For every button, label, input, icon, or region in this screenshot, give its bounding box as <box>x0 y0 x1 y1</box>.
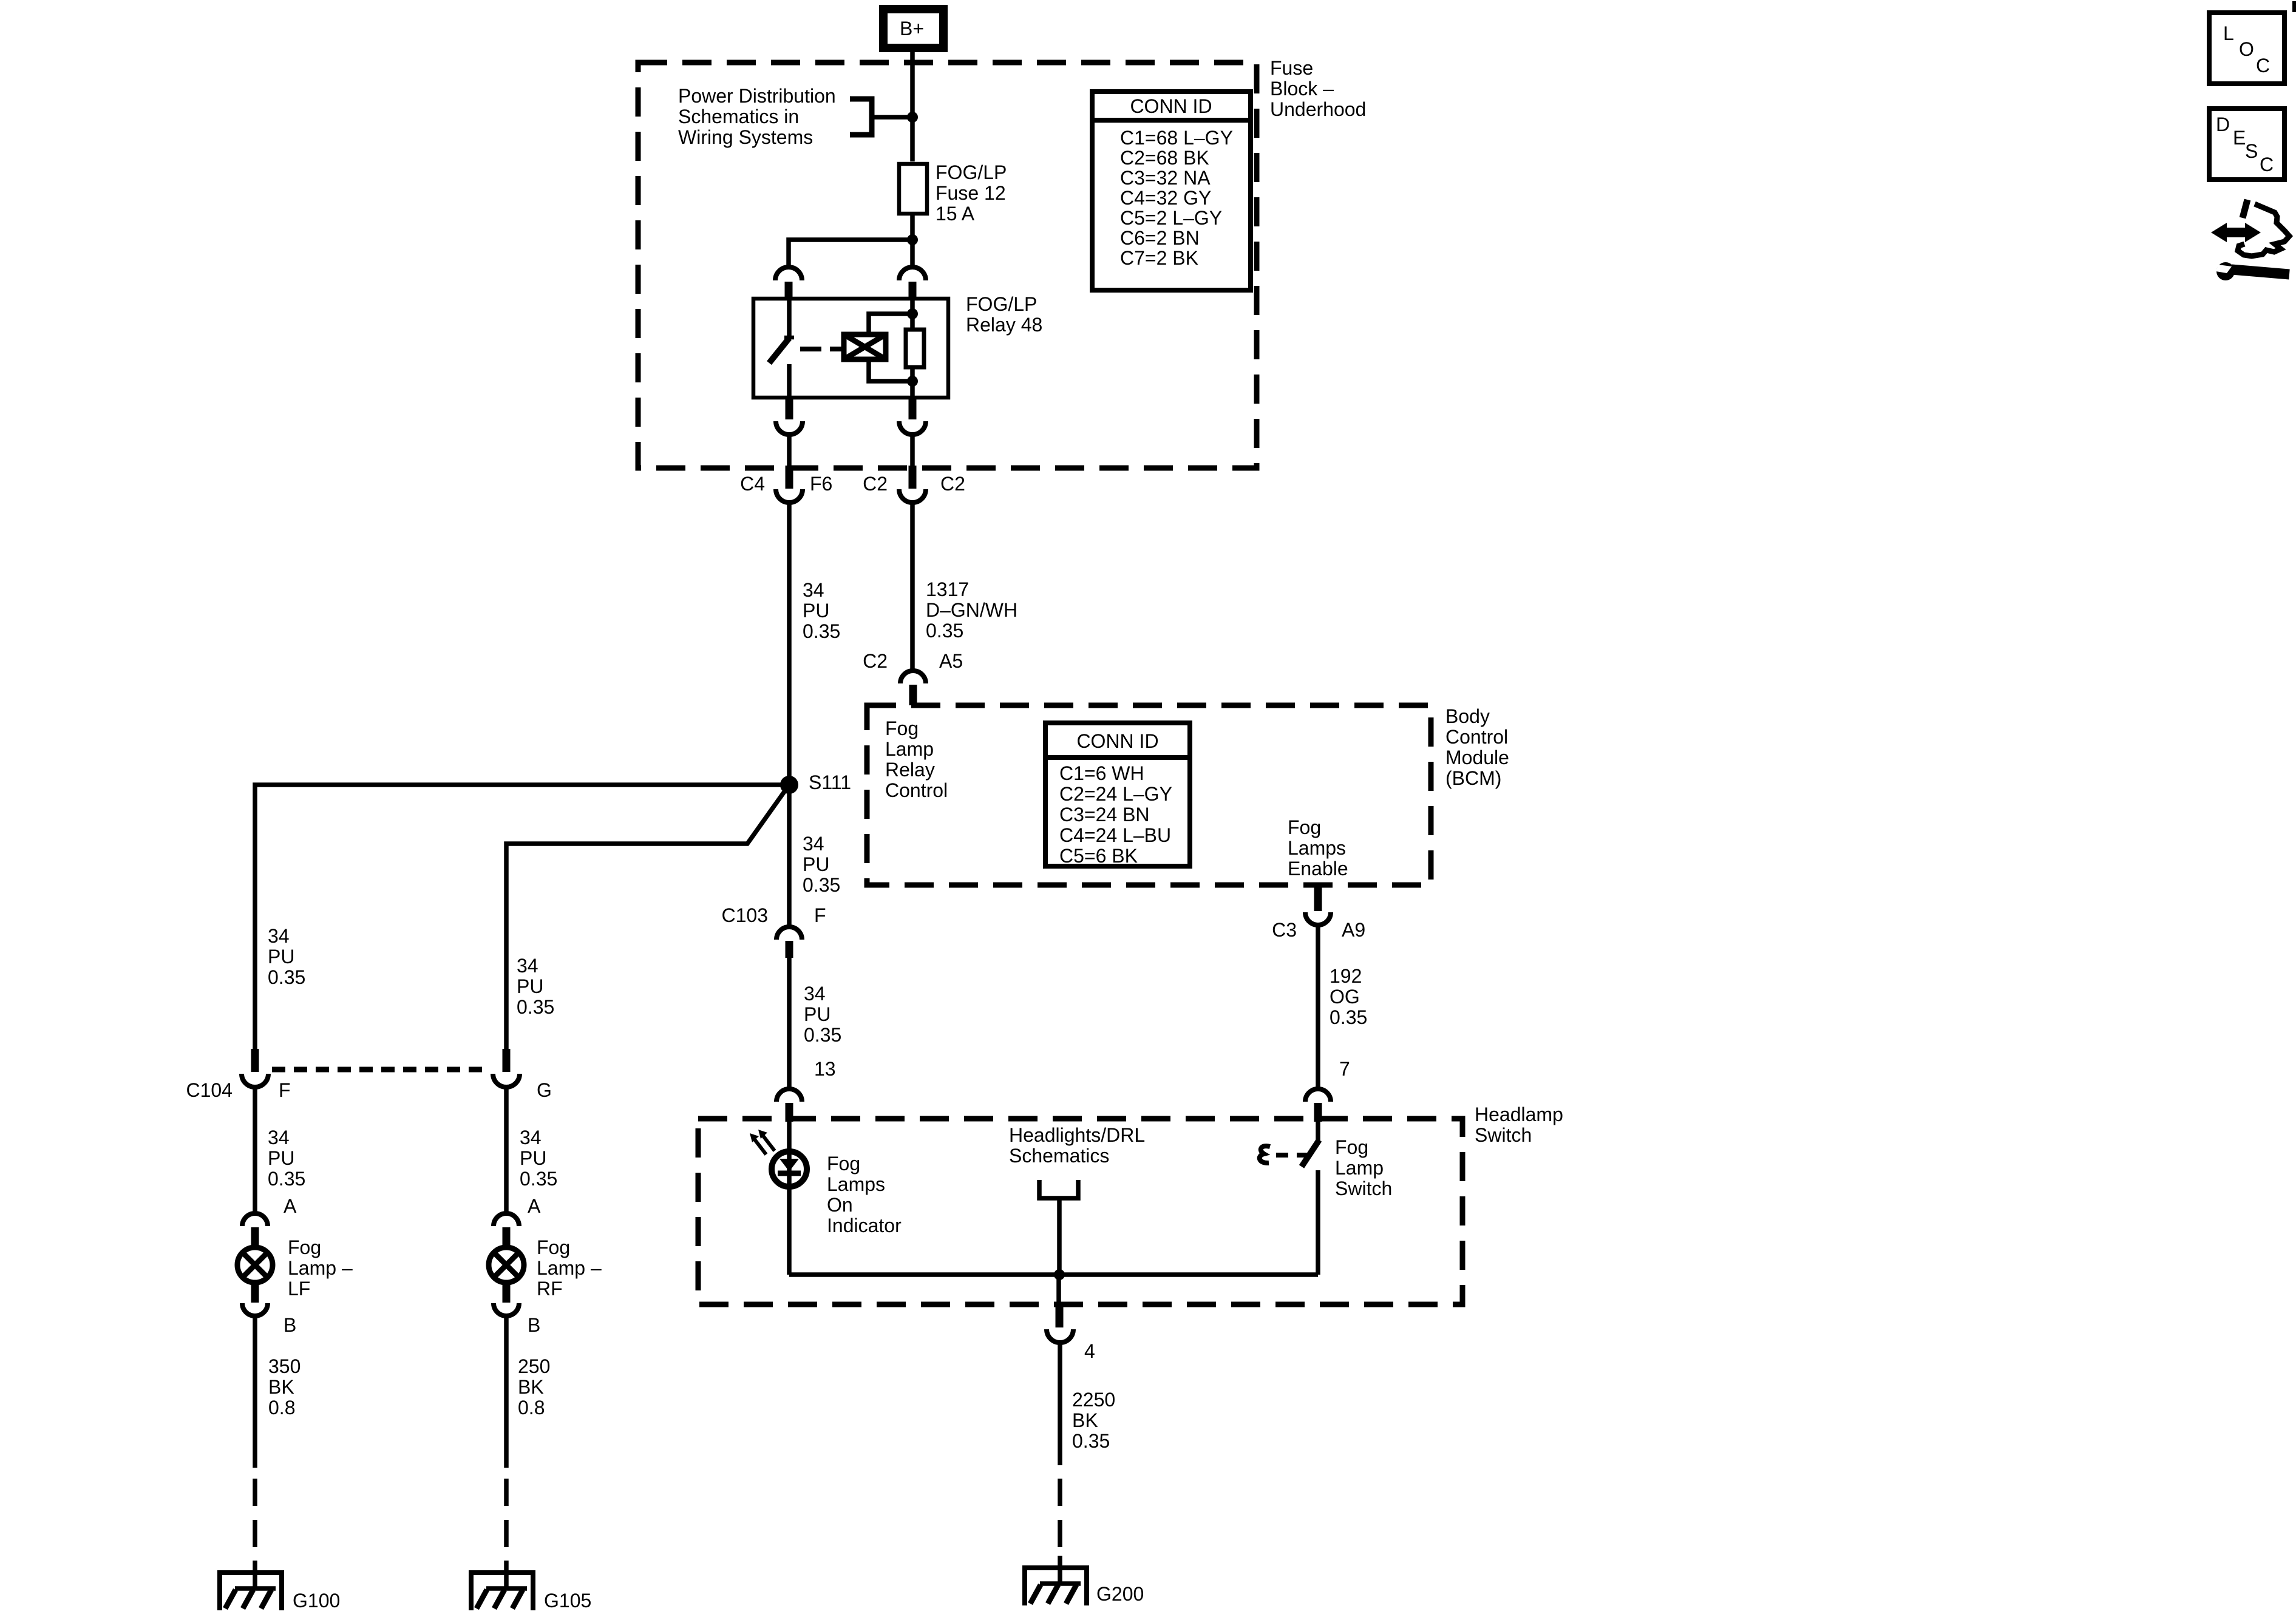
connector pin 7 <box>1305 1058 1350 1122</box>
svg-text:BK: BK <box>1072 1409 1098 1431</box>
wire label 34 PU 0.35 below S111 <box>803 833 840 896</box>
svg-text:B: B <box>528 1314 540 1336</box>
svg-text:FOG/LP: FOG/LP <box>966 293 1037 315</box>
dashed wire RF ground lead <box>504 1479 509 1561</box>
wire C2 to BCM <box>910 503 915 672</box>
wire label 34 PU 0.35 LF <box>268 1127 305 1190</box>
svg-text:RF: RF <box>537 1278 563 1300</box>
pin relay bottom right <box>909 398 917 419</box>
wire label 34 PU 0.35 RF <box>520 1127 557 1190</box>
relay switch lower stub <box>787 364 792 398</box>
wire S111 branch to RF <box>506 785 789 1049</box>
svg-text:C2=68 BK: C2=68 BK <box>1120 147 1209 169</box>
connector C2/C2 at fuse block exit <box>863 466 965 503</box>
svg-text:(BCM): (BCM) <box>1445 767 1501 789</box>
note Power Distribution Schematics in Wiring Systems <box>678 85 836 148</box>
double arrow icon <box>2211 223 2261 242</box>
svg-text:250: 250 <box>518 1355 550 1377</box>
relay switch blade <box>769 338 789 363</box>
svg-text:F: F <box>279 1079 291 1101</box>
wire label 34 PU 0.35 right branch <box>517 955 554 1018</box>
wire C4 to S111 <box>787 503 792 927</box>
svg-text:13: 13 <box>814 1058 836 1080</box>
svg-text:C3=24 BN: C3=24 BN <box>1059 804 1150 825</box>
wire branch to relay switch side <box>789 240 912 266</box>
svg-text:Body: Body <box>1445 705 1490 727</box>
wire B+ to fuse block <box>910 52 915 161</box>
svg-text:On: On <box>827 1194 853 1216</box>
svg-text:C: C <box>2260 154 2274 175</box>
node junction below fuse <box>907 234 918 245</box>
svg-text:Underhood: Underhood <box>1270 98 1366 120</box>
svg-text:CONN ID: CONN ID <box>1130 95 1212 117</box>
svg-text:PU: PU <box>268 946 294 968</box>
svg-text:G100: G100 <box>293 1590 340 1612</box>
CONN ID table BCM <box>1045 723 1190 867</box>
label Fog Lamp - RF <box>537 1236 602 1300</box>
svg-text:0.35: 0.35 <box>268 966 305 988</box>
svg-text:B: B <box>284 1314 296 1336</box>
label Headlights/DRL Schematics <box>1009 1124 1145 1167</box>
pin relay bottom left <box>786 398 793 419</box>
svg-text:F6: F6 <box>810 473 832 495</box>
svg-text:C7=2 BK: C7=2 BK <box>1120 247 1198 269</box>
wire C103 to headlamp switch <box>787 958 792 1090</box>
connector arc below relay left <box>776 421 803 435</box>
svg-text:Lamp –: Lamp – <box>537 1257 602 1279</box>
svg-text:C4: C4 <box>740 473 765 495</box>
wire label 34 PU 0.35 at C103 <box>804 983 841 1046</box>
svg-text:0.35: 0.35 <box>268 1168 305 1190</box>
fuse block underhood dashed box <box>638 63 1257 468</box>
svg-text:350: 350 <box>268 1355 301 1377</box>
fuse FOG/LP Fuse 12 15A <box>899 164 927 214</box>
svg-text:G105: G105 <box>544 1590 591 1612</box>
svg-text:0.35: 0.35 <box>804 1024 841 1046</box>
svg-text:Fuse: Fuse <box>1270 57 1313 79</box>
connector C104 F <box>186 1049 291 1101</box>
svg-text:Indicator: Indicator <box>827 1215 902 1236</box>
wire to fuse block edge right <box>910 435 915 467</box>
svg-text:PU: PU <box>803 600 829 622</box>
relay coil branch wire <box>869 314 912 337</box>
svg-text:C104: C104 <box>186 1079 233 1101</box>
svg-text:Headlights/DRL: Headlights/DRL <box>1009 1124 1145 1146</box>
svg-text:34: 34 <box>520 1127 542 1148</box>
connector arc relay pin 2 top <box>899 267 926 280</box>
svg-text:PU: PU <box>803 853 829 875</box>
svg-text:192: 192 <box>1330 965 1362 987</box>
dashed wire to G200 <box>1058 1479 1062 1556</box>
svg-text:BK: BK <box>268 1376 294 1398</box>
pin A fog lamp LF <box>242 1195 297 1246</box>
B+ power symbol <box>883 9 943 48</box>
wire C104 to fog lamp RF <box>504 1087 509 1213</box>
pin B fog lamp RF <box>494 1284 540 1336</box>
svg-text:LF: LF <box>288 1278 310 1300</box>
svg-text:C4=24 L–BU: C4=24 L–BU <box>1059 824 1171 846</box>
svg-text:Fog: Fog <box>827 1153 860 1175</box>
fog lamp switch <box>1260 1122 1319 1275</box>
svg-text:34: 34 <box>803 579 824 601</box>
svg-text:F: F <box>814 904 826 926</box>
relay right wire through <box>910 299 915 398</box>
wrench icon <box>2216 262 2289 280</box>
connector arc relay pin 1 top <box>775 267 802 280</box>
wire bus to pin 4 <box>1056 1275 1061 1305</box>
pin into relay top right <box>909 282 917 299</box>
svg-text:2250: 2250 <box>1072 1389 1115 1411</box>
svg-text:Relay: Relay <box>885 759 935 781</box>
svg-text:0.35: 0.35 <box>1330 1006 1367 1028</box>
node relay coil top <box>907 308 918 319</box>
svg-text:FOG/LP: FOG/LP <box>936 161 1007 183</box>
svg-text:C2: C2 <box>863 473 888 495</box>
wire label 34 PU 0.35 left branch <box>268 925 305 988</box>
hand pointer icon <box>2238 200 2289 256</box>
bus wire inside headlamp switch <box>789 1272 1318 1277</box>
connector C104 dashed link <box>272 1067 489 1073</box>
connector pin 13 <box>776 1058 836 1122</box>
svg-text:0.8: 0.8 <box>518 1397 545 1419</box>
relay switch contact upper stub <box>787 299 792 336</box>
LOC icon box <box>2209 13 2284 84</box>
svg-text:0.35: 0.35 <box>803 620 840 642</box>
svg-text:1317: 1317 <box>926 578 969 600</box>
svg-text:PU: PU <box>268 1147 294 1169</box>
dashed wire LF ground lead <box>253 1479 257 1561</box>
svg-text:4: 4 <box>1084 1340 1095 1362</box>
label Fog Lamps Enable <box>1288 816 1348 880</box>
svg-text:G: G <box>537 1079 552 1101</box>
splice S111 <box>780 776 798 794</box>
svg-text:34: 34 <box>268 925 290 947</box>
wire label 34 PU 0.35 upper <box>803 579 840 642</box>
fog lamp RF bulb <box>489 1247 524 1283</box>
pin into relay top left <box>785 282 793 299</box>
svg-text:B+: B+ <box>900 18 924 39</box>
svg-text:C2: C2 <box>940 473 965 495</box>
connector C104 G <box>493 1049 552 1101</box>
label Fog Lamps On Indicator <box>827 1153 902 1236</box>
svg-text:A: A <box>284 1195 297 1217</box>
svg-text:Control: Control <box>885 779 948 801</box>
wire BCM fog lamps enable to C3/A9 <box>1314 885 1322 911</box>
connector C4/F6 at fuse block exit <box>740 466 832 503</box>
bracket for power distribution note <box>850 99 872 135</box>
ground G100 <box>219 1561 340 1612</box>
svg-text:Switch: Switch <box>1335 1178 1392 1199</box>
svg-text:Schematics in: Schematics in <box>678 106 799 127</box>
node relay coil bottom <box>907 376 918 387</box>
node junction at B+ feed <box>907 112 918 123</box>
svg-text:Fog: Fog <box>885 717 919 739</box>
svg-text:S: S <box>2245 140 2258 162</box>
label Fog Lamp Switch <box>1335 1136 1392 1199</box>
svg-text:0.35: 0.35 <box>1072 1430 1110 1452</box>
svg-text:0.35: 0.35 <box>926 620 963 642</box>
svg-text:Power Distribution: Power Distribution <box>678 85 836 107</box>
svg-text:34: 34 <box>803 833 824 855</box>
wire label 1317 D-GN/WH 0.35 <box>926 578 1017 642</box>
relay resistor <box>906 330 924 367</box>
svg-text:L: L <box>2223 22 2234 44</box>
DESC icon box <box>2209 109 2284 180</box>
wire to G200 <box>1058 1343 1062 1465</box>
svg-text:0.35: 0.35 <box>803 874 840 896</box>
connector C3/A9 <box>1272 912 1365 941</box>
svg-text:S111: S111 <box>809 771 851 793</box>
svg-text:15 A: 15 A <box>936 203 975 225</box>
svg-text:0.35: 0.35 <box>517 996 554 1018</box>
node bus junction <box>1054 1269 1065 1280</box>
pin B fog lamp LF <box>242 1284 296 1336</box>
svg-text:Fuse 12: Fuse 12 <box>936 182 1006 204</box>
svg-text:Fog: Fog <box>288 1236 321 1258</box>
wire label 2250 BK 0.35 <box>1072 1389 1115 1452</box>
svg-text:Control: Control <box>1445 726 1508 748</box>
svg-text:C3: C3 <box>1272 919 1297 941</box>
label Fog Lamp - LF <box>288 1236 353 1300</box>
svg-text:C5=6 BK: C5=6 BK <box>1059 845 1138 867</box>
svg-text:C5=2 L–GY: C5=2 L–GY <box>1120 207 1222 229</box>
svg-text:Enable: Enable <box>1288 858 1348 880</box>
svg-text:A5: A5 <box>939 650 963 672</box>
relay actuation dashes <box>800 347 845 351</box>
svg-text:E: E <box>2233 127 2246 149</box>
connector pin 4 <box>1047 1305 1095 1362</box>
svg-text:OG: OG <box>1330 986 1360 1008</box>
svg-text:A9: A9 <box>1342 919 1365 941</box>
svg-text:0.8: 0.8 <box>268 1397 295 1419</box>
label Fog Lamp Relay Control <box>885 717 948 801</box>
label Body Control Module (BCM) <box>1445 705 1509 789</box>
svg-text:Lamp: Lamp <box>1335 1157 1384 1179</box>
wire to fuse block edge left <box>787 435 792 467</box>
svg-text:7: 7 <box>1339 1058 1350 1080</box>
svg-text:C2: C2 <box>863 650 888 672</box>
wire S111 branch to LF <box>255 785 789 1049</box>
svg-text:Module: Module <box>1445 747 1509 768</box>
wire A9 to headlamp switch <box>1316 925 1320 1090</box>
label Headlamp Switch <box>1475 1103 1563 1146</box>
svg-text:C: C <box>2256 55 2270 76</box>
svg-text:Wiring Systems: Wiring Systems <box>678 126 813 148</box>
svg-text:Block –: Block – <box>1270 78 1334 100</box>
svg-text:D–GN/WH: D–GN/WH <box>926 599 1017 621</box>
wire fuse to junction <box>910 214 915 267</box>
wire C104 to fog lamp LF <box>253 1087 257 1213</box>
svg-text:G200: G200 <box>1096 1583 1144 1605</box>
svg-text:C2=24 L–GY: C2=24 L–GY <box>1059 783 1172 805</box>
wire RF to ground <box>504 1316 509 1468</box>
svg-text:PU: PU <box>517 975 543 997</box>
relay FOG/LP Relay 48 box <box>753 299 948 398</box>
svg-text:Lamps: Lamps <box>827 1173 885 1195</box>
corner mark top right <box>2292 1 2296 12</box>
svg-text:34: 34 <box>268 1127 290 1148</box>
label Fuse Block - Underhood <box>1270 57 1366 120</box>
svg-text:Relay 48: Relay 48 <box>966 314 1042 336</box>
svg-text:O: O <box>2239 38 2254 60</box>
pin A fog lamp RF <box>494 1195 541 1246</box>
ground G105 <box>470 1561 591 1612</box>
svg-text:D: D <box>2216 114 2230 135</box>
svg-text:A: A <box>528 1195 541 1217</box>
wire label 350 BK 0.8 <box>268 1355 301 1419</box>
svg-text:Fog: Fog <box>1335 1136 1368 1158</box>
wire label 192 OG 0.35 <box>1330 965 1367 1028</box>
connector C2/A5 at BCM <box>863 650 963 705</box>
svg-text:C1=68 L–GY: C1=68 L–GY <box>1120 127 1233 149</box>
CONN ID table fuse block <box>1092 92 1251 290</box>
bracket headlights DRL link <box>1039 1180 1078 1198</box>
svg-text:PU: PU <box>520 1147 546 1169</box>
svg-text:Switch: Switch <box>1475 1124 1532 1146</box>
ground G200 <box>1024 1556 1144 1605</box>
fog lamp LF bulb <box>237 1247 273 1283</box>
svg-text:Headlamp: Headlamp <box>1475 1103 1563 1125</box>
wire label 250 BK 0.8 <box>518 1355 550 1419</box>
connector C103/F <box>722 904 826 958</box>
relay coil box with X <box>844 334 886 359</box>
svg-text:CONN ID: CONN ID <box>1076 730 1158 752</box>
svg-text:34: 34 <box>804 983 826 1005</box>
svg-text:C1=6 WH: C1=6 WH <box>1059 762 1144 784</box>
LED fog lamps on indicator <box>750 1122 807 1275</box>
svg-text:Lamp: Lamp <box>885 738 934 760</box>
svg-text:BK: BK <box>518 1376 544 1398</box>
svg-text:Lamps: Lamps <box>1288 837 1346 859</box>
svg-text:C4=32 GY: C4=32 GY <box>1120 187 1211 209</box>
svg-text:Fog: Fog <box>1288 816 1321 838</box>
wire LF to ground <box>253 1316 257 1468</box>
svg-text:34: 34 <box>517 955 538 977</box>
svg-text:Lamp –: Lamp – <box>288 1257 353 1279</box>
svg-text:C6=2 BN: C6=2 BN <box>1120 227 1200 249</box>
svg-text:C3=32 NA: C3=32 NA <box>1120 167 1211 189</box>
svg-text:PU: PU <box>804 1003 830 1025</box>
svg-text:C103: C103 <box>722 904 769 926</box>
connector arc below relay right <box>899 421 926 435</box>
headlamp switch dashed box <box>698 1119 1462 1304</box>
svg-text:Schematics: Schematics <box>1009 1145 1109 1167</box>
svg-text:0.35: 0.35 <box>520 1168 557 1190</box>
svg-text:Fog: Fog <box>537 1236 570 1258</box>
BCM dashed box <box>867 705 1431 885</box>
